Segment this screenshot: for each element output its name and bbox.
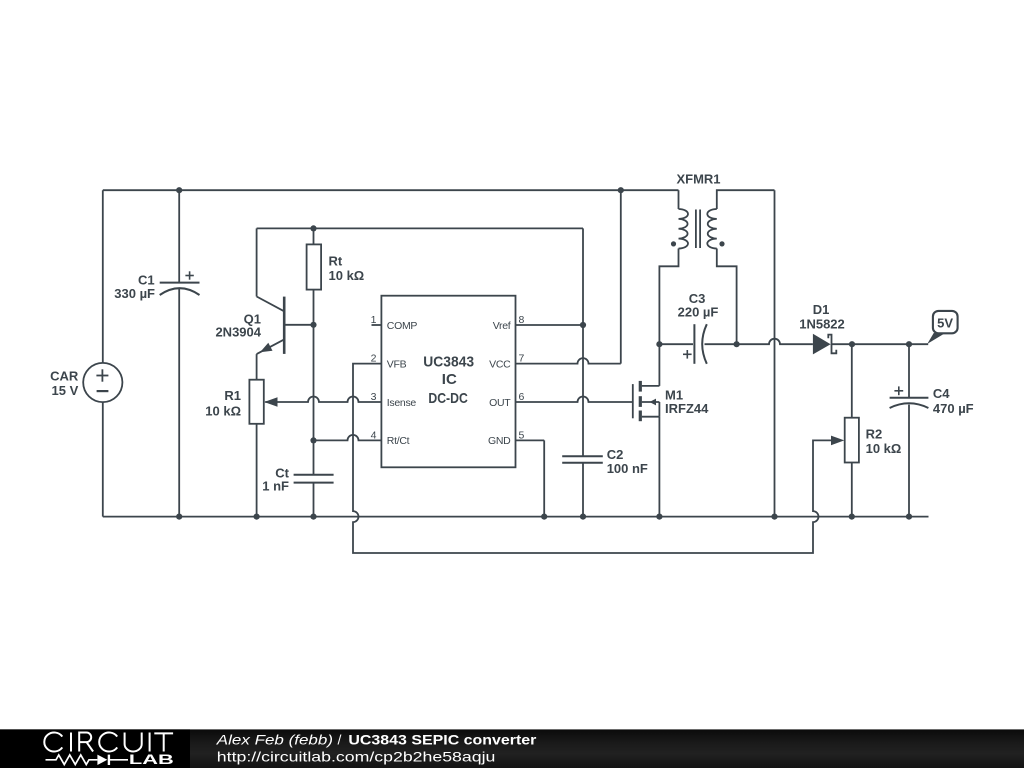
pin 3 Isense xyxy=(371,391,417,409)
svg-text:100 nF: 100 nF xyxy=(607,461,648,476)
wire C1 top xyxy=(178,190,180,282)
resistor R1 10k potentiometer xyxy=(205,380,277,424)
node junction 313.5,228.4 xyxy=(310,225,316,231)
svg-text:4: 4 xyxy=(371,430,377,442)
node junction 909.0,344.2 xyxy=(906,341,912,347)
pin 2 VFB xyxy=(371,353,407,371)
svg-text:2: 2 xyxy=(371,353,377,365)
pin 4 Rt/Ct xyxy=(371,430,410,448)
wire xfmr left top xyxy=(678,190,680,209)
node junction 583.0,516.6 xyxy=(580,514,586,520)
wire left rail lower xyxy=(102,402,104,517)
pin 7 VCC xyxy=(489,353,524,371)
svg-text:15 V: 15 V xyxy=(52,383,79,398)
wire VCC riser xyxy=(620,190,622,363)
transistor M1 IRFZ44 MOSFET xyxy=(633,381,709,421)
node junction 179.2,516.6 xyxy=(176,514,182,520)
node junction 620.8,190.2 xyxy=(618,187,624,193)
wire xfmr right top xyxy=(717,190,775,209)
wire Rt/Ct pin xyxy=(314,435,382,440)
capacitor Ct 1nF xyxy=(262,465,333,493)
svg-text:2N3904: 2N3904 xyxy=(215,324,261,339)
svg-text:D1: D1 xyxy=(813,302,830,317)
wire xfmr right bottom xyxy=(717,249,737,345)
svg-text:R1: R1 xyxy=(224,388,241,403)
wire Isense xyxy=(265,397,381,403)
wire ground bus xyxy=(103,516,929,518)
wire C3 left xyxy=(659,343,693,345)
svg-text:5: 5 xyxy=(519,430,525,442)
node junction 774.5,516.6 xyxy=(771,514,777,520)
pin 8 Vref xyxy=(493,314,525,332)
wire C3 right / D1 anode xyxy=(705,339,813,345)
node junction 313.5,324.8 xyxy=(310,322,316,328)
svg-text:LAB: LAB xyxy=(129,751,174,767)
wire Vref riser upper xyxy=(582,228,584,455)
wire Vref rail xyxy=(257,227,583,229)
footer url xyxy=(217,748,496,764)
wire GND pin xyxy=(516,440,545,516)
wire secondary to bus xyxy=(774,190,776,516)
svg-text:470 µF: 470 µF xyxy=(933,401,974,416)
svg-text:C4: C4 xyxy=(933,386,950,401)
svg-text:10 kΩ: 10 kΩ xyxy=(866,441,902,456)
svg-text:1: 1 xyxy=(371,314,377,326)
wire Q1 collector stub xyxy=(256,228,258,296)
svg-text:7: 7 xyxy=(519,353,525,365)
wire Rt bottom / Ct column xyxy=(313,290,315,474)
wire OUT to gate xyxy=(516,397,633,403)
node 5V flag xyxy=(927,311,957,344)
wire top rail xyxy=(103,189,679,191)
svg-text:GND: GND xyxy=(488,435,511,447)
wire C4 bottom xyxy=(908,405,910,517)
pin 1 COMP xyxy=(371,314,418,332)
diode D1 1N5822 xyxy=(799,302,845,354)
svg-text:DC-DC: DC-DC xyxy=(428,390,468,407)
svg-text:Alex Feb (febb): Alex Feb (febb) xyxy=(216,731,333,747)
wire C1 bottom xyxy=(178,289,180,517)
wire VFB feedback xyxy=(353,364,832,553)
svg-text:VCC: VCC xyxy=(489,358,511,370)
svg-text:330 µF: 330 µF xyxy=(114,286,155,301)
wire xfmr left bottom xyxy=(659,249,678,345)
node junction 179.2,190.2 xyxy=(176,187,182,193)
node junction 909.0,516.6 xyxy=(906,514,912,520)
svg-text:6: 6 xyxy=(519,391,525,403)
svg-text:Vref: Vref xyxy=(493,320,511,332)
svg-text:OUT: OUT xyxy=(489,397,511,409)
svg-text:CAR: CAR xyxy=(50,369,79,384)
transistor Q1 2N3904 xyxy=(215,297,284,355)
footer bar xyxy=(0,729,1024,768)
wire M1 drain riser xyxy=(642,344,660,386)
CircuitLab logo xyxy=(44,733,173,768)
pin 5 GND xyxy=(488,430,525,448)
svg-text:Rt/Ct: Rt/Ct xyxy=(387,435,410,447)
op-amp U1 UC3843 IC box xyxy=(381,296,515,468)
capacitor C1 330uF xyxy=(114,271,199,301)
wire C2 to bus xyxy=(582,463,584,516)
svg-text:IC: IC xyxy=(442,371,457,388)
node junction 583.0,325.0 xyxy=(580,322,586,328)
svg-text:10 kΩ: 10 kΩ xyxy=(205,404,241,419)
svg-text:Isense: Isense xyxy=(387,397,417,409)
svg-text:Rt: Rt xyxy=(329,254,343,269)
node junction 851.8,516.6 xyxy=(849,514,855,520)
pin 6 OUT xyxy=(489,391,524,409)
svg-text:5V: 5V xyxy=(937,315,953,330)
svg-text:8: 8 xyxy=(519,314,525,326)
capacitor C2 100nF xyxy=(562,447,648,476)
resistor R2 10k potentiometer xyxy=(831,418,901,463)
capacitor C3 220uF xyxy=(678,291,719,364)
resistor Rt 10k xyxy=(307,244,365,289)
svg-text:http://circuitlab.com/cp2b2he5: http://circuitlab.com/cp2b2he58aqju xyxy=(217,748,496,764)
wire left rail upper xyxy=(102,190,104,363)
svg-text:1 nF: 1 nF xyxy=(262,479,289,494)
svg-text:3: 3 xyxy=(371,391,377,403)
voltage source CAR 15V xyxy=(50,363,122,402)
node junction 544.2,516.6 xyxy=(541,514,547,520)
wire M1 source riser xyxy=(642,417,660,517)
wire Ct to bus xyxy=(313,483,315,516)
node junction 659.4,516.6 xyxy=(656,514,662,520)
footer title xyxy=(216,731,537,747)
wire Q1 base wire xyxy=(284,324,313,326)
wire R2 bottom xyxy=(851,463,853,517)
svg-text:220 µF: 220 µF xyxy=(678,305,719,320)
node junction 659.4,344.2 xyxy=(656,341,662,347)
node junction 313.5,440.4 xyxy=(310,437,316,443)
wire R2 top xyxy=(851,344,853,418)
wire Rt top stub xyxy=(313,228,315,244)
wire Q1 emitter to R1 xyxy=(256,354,258,380)
svg-text:10 kΩ: 10 kΩ xyxy=(329,268,365,283)
transformer XFMR1 xyxy=(671,172,725,249)
pin 1 stub COMP xyxy=(372,324,382,326)
svg-text:1N5822: 1N5822 xyxy=(799,316,845,331)
svg-text:R2: R2 xyxy=(866,427,883,442)
svg-text:UC3843 SEPIC converter: UC3843 SEPIC converter xyxy=(348,731,537,747)
wire VCC pin xyxy=(516,358,621,364)
node junction 736.6,344.2 xyxy=(734,341,740,347)
wire Vref pin xyxy=(516,324,584,326)
svg-text:XFMR1: XFMR1 xyxy=(676,172,720,187)
svg-text:/: / xyxy=(338,731,342,747)
svg-text:IRFZ44: IRFZ44 xyxy=(665,401,709,416)
node junction 313.5,516.6 xyxy=(310,514,316,520)
wire R1 to bus xyxy=(256,424,258,517)
svg-text:C2: C2 xyxy=(607,447,624,462)
wire D1 cathode to 5V xyxy=(832,343,929,345)
node junction 256.6,516.6 xyxy=(254,514,260,520)
capacitor C4 470uF xyxy=(890,386,974,416)
wire C4 top xyxy=(908,344,910,398)
svg-text:VFB: VFB xyxy=(387,358,407,370)
svg-text:UC3843: UC3843 xyxy=(423,353,474,370)
svg-text:COMP: COMP xyxy=(387,320,418,332)
node junction 852.0,344.2 xyxy=(849,341,855,347)
svg-text:M1: M1 xyxy=(665,387,683,402)
